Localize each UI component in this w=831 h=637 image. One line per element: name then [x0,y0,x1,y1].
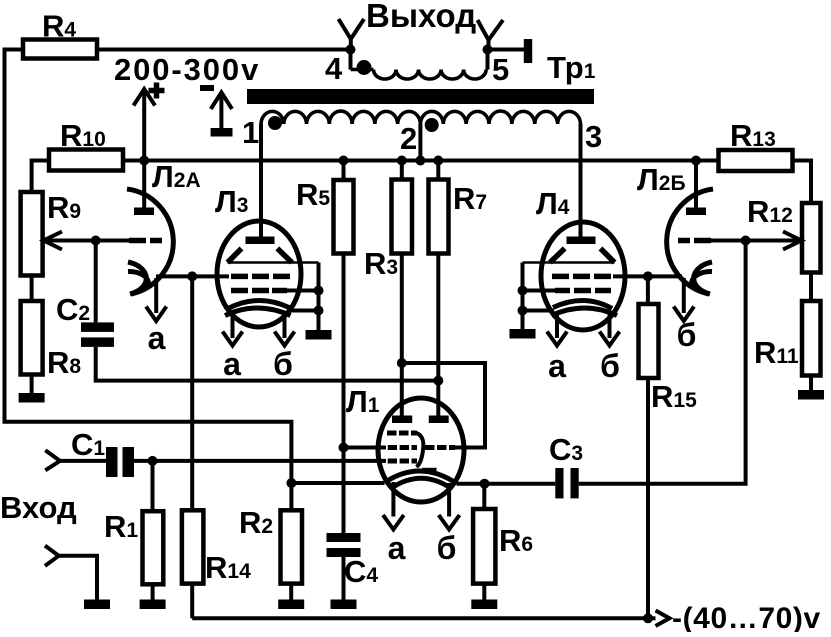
svg-text:2: 2 [400,121,417,156]
capacitor C3 [555,468,563,498]
pentode Л4 envelope [541,222,625,330]
node: C1 / R1 [148,456,158,466]
svg-text:а: а [148,320,166,356]
potentiometer R12 [802,203,821,273]
resistor R2 [289,483,293,510]
node: +HV at Л2А anode / + arrow [139,156,149,166]
transformer Tp1 primary winding (terminals 1-2-3) [261,111,420,124]
resistor R7 [436,161,440,180]
node: Л3 grid2 tie [314,286,324,296]
double triode Л1 envelope [378,398,464,502]
Л1 cathode arc [385,471,457,484]
svg-text:б: б [600,348,620,384]
resistor R11 [802,301,821,376]
arrow to -(40...70)v terminal [648,616,656,620]
Л2А heater lead with arrow, label а [154,278,158,313]
Л3 anode [246,237,275,245]
wire: input 2 to ground [58,556,97,600]
wire: R15 bottom to negative bus [646,378,650,618]
wire feedback: R4 left lead and left rail down to node at Л1 cathode line [5,50,292,484]
wire: loop from R3 node to Л1 right grid [402,363,485,448]
wire: Л1 cathode left to R2 node [291,481,384,485]
wire: C2 bottom right to node at R7/Л1 right anode [96,347,439,381]
resistor R8 [21,301,43,375]
resistor R14 [190,276,194,510]
wire: Л3 grid1 to node at Л2А cathode [192,274,229,278]
wire: grid node down to C2 [94,241,98,323]
Л2А anode [134,208,154,216]
Л4 heater lead б [608,313,612,338]
wire: Л2Б anode to +HV bus [694,161,698,208]
Л1 right anode [429,416,449,424]
svg-text:а: а [388,530,406,566]
Л4 beam plates diagonals [550,248,565,262]
ground under R8 [30,375,34,394]
node: R3 at bus [397,156,407,166]
Л2Б cathode arcs [694,262,712,294]
svg-text:б: б [273,346,293,382]
capacitor C4 [327,533,361,542]
Л2Б heater lead б [682,278,686,313]
svg-text:а: а [548,348,566,384]
wire: R5 bottom down to grid node and C4 [342,254,346,534]
triode Л2А envelope [127,189,173,294]
Л4 anode [567,237,596,245]
wire: Л3 grid2 to ground column [287,289,319,293]
ground under R11 [809,376,813,391]
wire: Л4 cathode to ground column [523,309,555,313]
Л3 beam plates diagonals [228,248,242,262]
Л4 grid2 dashes [555,288,570,294]
triode Л2Б envelope [667,189,713,294]
Л4 grid1 dashes [552,274,569,280]
wire: Л3 cathode to ground column [288,309,319,313]
node: Л1 left grid row B / R5 / C4 [339,443,349,453]
node: R3 column tee to Л1 right grid loop [397,358,407,368]
svg-text:а: а [223,346,241,382]
output connector right (Y) [478,20,504,40]
svg-text:-(40…70)v: -(40…70)v [672,602,821,632]
wire: negative bias bus -(40...70)v [192,616,648,620]
ground under input 2 [84,600,110,610]
wire: R3 bottom to Л1 left anode [400,254,404,416]
Л1 heater arc [390,478,452,489]
Л2Б anode [686,208,706,216]
node: R7 / C2 wire / Л1 right anode [433,376,443,386]
plus sign [149,88,165,94]
polarity dot secondary [357,60,372,75]
ground under R2 [289,584,293,600]
resistor R13 [719,150,793,171]
node: Л2А cathode / Л3 grid / R14 [187,271,197,281]
wire: Л4 grid2 to ground column [523,289,556,293]
Л1 heater lead б [447,483,451,517]
wire: R13 right down to R12 [793,161,812,204]
ground bar of Л3 column [306,330,332,340]
Л3 grid2 dashes [231,288,248,294]
Л3 heater arc [225,308,291,316]
resistor R4 [23,40,97,59]
resistor R10 [49,150,123,171]
wire: C4 to ground [342,557,346,600]
wire: Л2Б grid to R12 wiper node [710,239,746,243]
resistor R5 [342,161,346,181]
transformer core bar [247,89,594,104]
ground under R6 [482,584,486,600]
svg-text:б: б [437,530,457,566]
wire: terminal 3 down to Л4 anode [579,124,583,237]
input connector 2 [45,546,59,566]
node: Л3 cathode tie [314,306,324,316]
node: Л4 grid / R15 / Л2Б cathode [643,271,653,281]
node: R7 at bus [433,156,443,166]
resistor R3 [400,161,404,180]
wire: R4 right lead to output terminal 4 node [97,48,351,52]
Л1 grid row A dashes [387,431,397,436]
Л2А cathode arcs [128,262,146,294]
wire: terminal 2 down to +HV bus [418,124,422,161]
node: Л4 grid2 tie [518,286,528,296]
wire: Л4 grid1 right to node R15 / Л2Б cathode [613,274,682,278]
svg-text:4: 4 [325,51,343,86]
node: Л2Б anode at bus [691,156,701,166]
Л4 cathode arc [553,300,612,308]
wire: row B to Л1 [344,446,387,450]
ground under R1 [151,584,155,599]
wire: Л1 cathode right to R6 and C3 [457,482,556,486]
svg-text:Вход: Вход [0,490,77,525]
plus supply arrow into bus [142,92,146,161]
Л3 cathode arc [228,300,289,308]
Л3 heater lead а [231,313,235,338]
wiper arrow of R9 from Л2А grid node [44,239,130,243]
input connector 1 [45,450,60,470]
wire: Л2А cathode to node [156,274,192,278]
wire: wiper node down and left to C3 [579,241,746,484]
wire: R10 left lead down to R9 [32,161,49,193]
node: R6 at Л1 cathode [480,479,490,489]
node: output terminal 4 [346,45,356,55]
capacitor C1 [106,447,118,477]
resistor R6 [482,484,486,509]
pentode Л3 envelope [217,221,301,327]
Л4 heater lead а [555,313,559,338]
Л3 grid1 dashes [231,274,248,280]
wire: R14 bottom to negative bus [190,584,194,619]
Л3 beam plate tie line to ground column [228,261,319,264]
polarity dot primary left half [268,116,282,130]
wire: R9 bottom to R8 top [30,276,34,302]
Л2А grid dashes [129,238,146,244]
svg-text:Выход: Выход [366,0,476,34]
Л1 inner curve separator [417,433,424,467]
polarity dot primary right half [425,118,439,132]
potentiometer R9 [21,192,43,276]
wire: Л2А anode to +HV bus [142,161,146,208]
node: R5 at bus [339,156,349,166]
Л1 heater lead а [391,482,395,517]
Л2Б grid dashes [678,238,690,244]
Л4 heater arc [552,308,618,316]
wire: R7 bottom to Л1 right anode [436,254,440,416]
wire: terminal 1 down to Л3 anode [259,124,263,237]
node: R2 / feedback / Л1 cathode [286,478,296,488]
capacitor C2 [81,322,114,332]
Л1 left anode [392,416,412,424]
node: R12 wiper / Л2Б grid / C3 riser [741,236,751,246]
output connector left (Y) [339,19,365,39]
node: output terminal 5 [483,45,493,55]
wire: C1 to Л1 left grid row C [134,459,386,463]
node: Л2А grid / R9 wiper / C2 top [91,236,101,246]
svg-text:б: б [677,317,697,353]
Л3 heater lead б [283,312,287,338]
ground bar of Л4 column [510,329,536,339]
wire: input to C1 [58,459,106,463]
wiper arrow of R12 [746,239,802,243]
node: R15 at negative bus [643,613,653,623]
svg-text:5: 5 [492,52,509,87]
wire: +HV bus from R10 to R13 [123,159,719,163]
svg-text:1: 1 [242,115,259,150]
svg-text:3: 3 [585,119,602,154]
wire: terminal 5 to chassis stub [488,48,525,52]
Л1 grid row C dashes [388,459,397,464]
svg-text:200-300v: 200-300v [114,52,260,87]
node: terminal 2 at bus [415,156,425,166]
transformer Tp1 secondary winding (terminals 4-5) [349,50,353,70]
wire: R12 bottom to R11 [809,273,813,302]
resistor R15 [646,276,650,304]
node: Л4 cathode tie [518,306,528,316]
minus supply arrow to common bar [219,95,223,128]
resistor R1 [151,461,155,511]
chassis stub bar at output right [524,39,532,63]
Л4 beam plate tie line to ground column [523,261,615,264]
Л1 grid row B dashes [388,445,397,450]
minus sign [200,85,214,91]
